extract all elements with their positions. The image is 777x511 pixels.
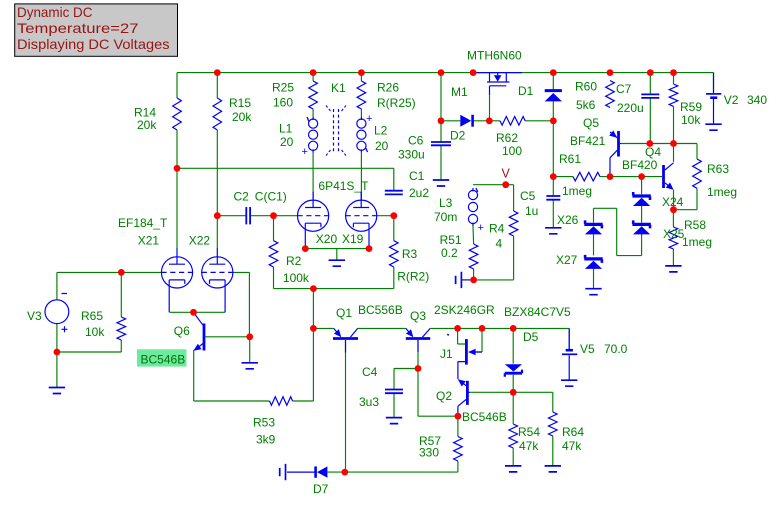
svg-text:R3: R3 — [402, 247, 418, 261]
resistor R65 — [81, 309, 126, 340]
wire R15/X22 plate column — [216, 73, 218, 249]
zener D5 (BZX84C7V5) — [504, 305, 571, 377]
junction R59 top — [670, 69, 677, 76]
wire R63 branch — [674, 144, 698, 210]
wire R61 row — [553, 176, 662, 178]
svg-text:5k6: 5k6 — [576, 98, 596, 112]
svg-text:330: 330 — [419, 446, 439, 460]
svg-text:BZX84C7V5: BZX84C7V5 — [504, 305, 571, 319]
svg-text:2u2: 2u2 — [409, 186, 429, 200]
svg-text:Q4: Q4 — [645, 145, 661, 159]
svg-text:1meg: 1meg — [682, 235, 712, 249]
svg-text:C4: C4 — [362, 365, 378, 379]
svg-text:R60: R60 — [575, 80, 597, 94]
jfet J1 (2SK246GR) — [434, 303, 495, 379]
junction Q1 base/D7 — [341, 469, 348, 476]
svg-text:70.0: 70.0 — [604, 342, 628, 356]
svg-text:R2: R2 — [286, 254, 302, 268]
wire X26-X27 link — [593, 233, 595, 289]
diode D1 — [518, 84, 562, 101]
transistor Q5 (pnp BF421) — [570, 116, 621, 177]
resistor R3 — [390, 241, 430, 284]
svg-text:330u: 330u — [398, 148, 425, 162]
capacitor C4 — [359, 365, 403, 409]
svg-text:R51: R51 — [440, 233, 462, 247]
svg-text:EF184_T: EF184_T — [118, 216, 168, 230]
svg-text:V: V — [502, 167, 511, 181]
wire R54 branch — [512, 392, 514, 466]
junction C7 top — [647, 69, 654, 76]
junction J1 gate — [479, 325, 486, 332]
svg-text:47k: 47k — [519, 439, 539, 453]
junction R26 top — [358, 69, 365, 76]
wire Q6 ground stub — [249, 337, 251, 363]
svg-text:+: + — [366, 113, 372, 125]
junction D5 top — [510, 325, 517, 332]
wire R57 branch — [457, 416, 459, 472]
svg-text:Dynamic DC: Dynamic DC — [17, 5, 93, 20]
svg-text:70m: 70m — [434, 210, 457, 224]
junction J1 drain — [454, 325, 461, 332]
svg-text:340: 340 — [747, 93, 767, 107]
svg-text:Q3: Q3 — [410, 309, 426, 323]
svg-text:3k9: 3k9 — [256, 433, 276, 447]
svg-text:C7: C7 — [616, 82, 632, 96]
wire D5 column — [512, 328, 514, 392]
capacitor C1 — [385, 169, 430, 200]
svg-text:10k: 10k — [85, 325, 105, 339]
wire Q1 base column — [345, 340, 347, 472]
zener X24 — [632, 192, 683, 209]
wire bottom D7 row — [327, 471, 458, 473]
junction C2/R2/X20 grid — [270, 212, 277, 219]
battery V5 — [562, 328, 628, 379]
junction X21 plate/C1 run — [174, 165, 181, 172]
resistor R64 — [549, 412, 585, 453]
ground at C4 — [386, 418, 402, 424]
svg-text:BC546B: BC546B — [462, 410, 507, 424]
resistor R14 — [134, 98, 181, 132]
wire R2-R3 bottom row — [274, 288, 394, 290]
diode D2 — [450, 115, 473, 143]
wire L3-R51 column — [472, 226, 475, 280]
svg-text:10k: 10k — [681, 113, 701, 127]
wire R25-L1 column — [312, 73, 314, 201]
junction X20 cathode — [302, 245, 309, 252]
ground at R54 — [505, 466, 521, 472]
svg-text:20k: 20k — [232, 110, 252, 124]
node V — [502, 167, 511, 181]
junction D2/C6 — [438, 117, 445, 124]
transistor Q1 (pnp BC556B) — [333, 303, 403, 353]
wire R65 column — [120, 272, 122, 352]
wire Q5 base row — [621, 143, 697, 145]
svg-text:4: 4 — [496, 237, 503, 251]
junction C2 left — [214, 212, 221, 219]
svg-text:Q2: Q2 — [436, 389, 452, 403]
junction D1/R62 — [550, 117, 557, 124]
junction C1/R3/X19 grid — [390, 212, 397, 219]
svg-text:20: 20 — [375, 139, 389, 153]
wire R14/X21 plate column — [176, 73, 178, 249]
zener X25 — [632, 220, 684, 241]
wire C5 lead — [552, 177, 554, 228]
junction R65 top — [118, 269, 125, 276]
resistor R15 — [213, 96, 252, 130]
ground at V3 — [49, 388, 65, 394]
wire R4 branch — [474, 185, 514, 280]
wire Q6 base row — [206, 336, 250, 338]
junction splitter/Q1 — [310, 325, 317, 332]
svg-text:V2: V2 — [724, 93, 739, 107]
svg-text:J1: J1 — [440, 347, 453, 361]
wire R64 branch — [552, 392, 554, 466]
resistor R25 — [272, 81, 317, 110]
junction Q4 emitter/R63 — [670, 206, 677, 213]
resistor R54 — [509, 424, 540, 453]
svg-text:C1: C1 — [409, 169, 425, 183]
svg-text:R53: R53 — [253, 416, 275, 430]
svg-text:X27: X27 — [556, 253, 578, 267]
junction C6 top — [438, 69, 445, 76]
svg-text:R(R2): R(R2) — [397, 270, 429, 284]
svg-text:MTH6N60: MTH6N60 — [467, 49, 522, 63]
wire R53 to splitter column — [293, 328, 314, 401]
svg-text:BC556B: BC556B — [358, 303, 403, 317]
inductor L1 — [279, 117, 318, 158]
svg-text:20k: 20k — [137, 118, 157, 132]
svg-text:X25: X25 — [663, 227, 685, 241]
wire R2 column — [273, 216, 275, 289]
battery V2 — [706, 73, 767, 124]
wire C1 coupling run — [177, 168, 394, 190]
svg-text:BF420: BF420 — [622, 158, 658, 172]
diode D7 — [313, 466, 329, 496]
wire splitter column — [312, 289, 314, 329]
wire C7 column — [649, 73, 651, 144]
junction R25 top — [310, 69, 317, 76]
junction node V — [502, 181, 509, 188]
junction D5/Q2 base — [510, 389, 517, 396]
wire X22 grid to Q6 base ground — [233, 272, 249, 336]
junction R2-R3 row — [310, 285, 317, 292]
svg-text:BC546B: BC546B — [141, 352, 186, 366]
ground at R58 — [665, 266, 681, 272]
resistor R61 — [559, 152, 600, 198]
junction Q5 collector/R61 — [607, 173, 614, 180]
svg-text:L2: L2 — [374, 124, 388, 138]
ground at D7 (left) — [280, 464, 286, 480]
wire Q4 collector lead — [673, 144, 675, 163]
resistor R53 — [253, 397, 293, 447]
tube X21 (EF184_T) — [118, 216, 193, 312]
svg-text:100k: 100k — [283, 271, 310, 285]
wire R59 column — [673, 73, 675, 144]
wire X21 grid from V3 — [57, 271, 161, 273]
svg-text:Q5: Q5 — [583, 116, 599, 130]
wire D2 to R62 row — [441, 120, 553, 122]
resistor R59 — [669, 84, 702, 127]
svg-text:Q1: Q1 — [336, 306, 352, 320]
highlight BC546B label of Q6 — [137, 349, 187, 366]
wire Q6 emitter to R53 — [194, 350, 270, 401]
wire R58 column — [672, 210, 674, 266]
junction Q2 collector/R57 — [455, 413, 462, 420]
svg-text:V3: V3 — [27, 309, 42, 323]
wire V3 column — [56, 272, 58, 387]
svg-text:1u: 1u — [525, 204, 538, 218]
svg-text:D1: D1 — [518, 84, 534, 98]
source V3 (sine) — [27, 294, 69, 333]
svg-text:100: 100 — [502, 144, 522, 158]
svg-text:BF421: BF421 — [570, 134, 606, 148]
wire Q1 emitter feed — [313, 327, 333, 329]
resistor R2 — [269, 241, 310, 285]
svg-text:6P41S_T: 6P41S_T — [318, 179, 369, 193]
wire D1 column — [552, 73, 554, 177]
svg-text:R62: R62 — [496, 131, 518, 145]
capacitor C2 — [234, 190, 287, 225]
svg-text:L1: L1 — [279, 122, 293, 136]
junction tube cathodes — [190, 309, 197, 316]
zener X26 — [557, 213, 603, 234]
ground at C5 — [545, 228, 561, 234]
wire Q1-Q3 link — [358, 327, 406, 329]
transistor Q4 (npn BF420) — [622, 145, 674, 190]
svg-text:220u: 220u — [617, 101, 644, 115]
svg-text:160: 160 — [273, 96, 293, 110]
ground at X20/X19 cathode — [329, 260, 345, 266]
inductor L2 — [357, 113, 389, 153]
wire J1 gate lead — [476, 328, 482, 352]
wire top supply rail — [177, 72, 714, 74]
ground at C6 — [433, 180, 449, 186]
ground at V5 — [561, 380, 577, 386]
wire left ground stub L3 — [461, 279, 473, 281]
svg-text:+: + — [302, 146, 308, 158]
wire R3 column — [393, 216, 395, 289]
wire D7 anode lead — [287, 471, 315, 473]
svg-text:R65: R65 — [81, 309, 103, 323]
junction C7/Q5 base — [646, 140, 653, 147]
svg-text:R54: R54 — [518, 425, 540, 439]
svg-text:V5: V5 — [580, 342, 595, 356]
svg-text:C(C1): C(C1) — [255, 190, 287, 204]
wire L3/V node row — [473, 184, 514, 186]
transformer core K1 — [326, 81, 346, 156]
svg-text:1meg: 1meg — [562, 184, 592, 198]
svg-text:R25: R25 — [272, 81, 294, 95]
junction R59/Q4 collector — [670, 140, 677, 147]
junction Q3 base/C4 — [415, 365, 422, 372]
svg-text:Q6: Q6 — [174, 324, 190, 338]
wire X25 to X26 jog — [594, 208, 642, 255]
svg-text:L3: L3 — [439, 196, 453, 210]
wire C4 stub — [394, 369, 418, 390]
resistor R26 — [357, 81, 416, 111]
resistor R63 — [693, 159, 737, 199]
transistor Q2 (npn BC546B) — [436, 379, 507, 424]
wire zener chain X24-X25 — [641, 177, 643, 256]
wire X19 grid row — [377, 215, 394, 217]
svg-text:R58: R58 — [684, 218, 706, 232]
wire X20/X19 cathode row — [305, 248, 369, 250]
ground at Q6 base — [242, 363, 258, 369]
wire M1 gate lead — [489, 95, 491, 121]
wire V5 branch — [568, 328, 570, 349]
svg-text:C6: C6 — [408, 134, 424, 148]
resistor R58 — [669, 218, 712, 249]
svg-text:47k: 47k — [562, 439, 582, 453]
svg-text:3u3: 3u3 — [359, 395, 379, 409]
junction X24 top — [638, 173, 645, 180]
inductor L3 — [434, 188, 484, 234]
svg-text:R(R25): R(R25) — [377, 96, 416, 110]
wire X21/X22 cathode row — [170, 311, 226, 313]
wire C4 ground lead — [393, 393, 395, 417]
svg-text:20: 20 — [280, 135, 294, 149]
capacitor C5 — [520, 189, 560, 218]
svg-text:K1: K1 — [331, 81, 346, 95]
ground at V2 — [705, 124, 721, 130]
svg-text:Displaying DC Voltages: Displaying DC Voltages — [17, 37, 170, 52]
svg-text:Temperature=27: Temperature=27 — [17, 21, 139, 36]
status box: analysis info — [15, 4, 178, 56]
svg-text:M1: M1 — [451, 85, 468, 99]
svg-text:R61: R61 — [559, 152, 581, 166]
svg-text:R15: R15 — [229, 96, 251, 110]
svg-text:0.2: 0.2 — [441, 246, 458, 260]
svg-text:1meg: 1meg — [707, 185, 737, 199]
svg-text:X21: X21 — [138, 234, 160, 248]
capacitor C7 — [616, 82, 659, 115]
svg-text:R64: R64 — [562, 425, 584, 439]
mosfet M1 (MTH6N60) — [451, 49, 522, 100]
wire J1 drain lead — [458, 328, 465, 344]
svg-text:D5: D5 — [523, 330, 539, 344]
resistor R62 — [496, 117, 525, 159]
wire X20 grid row — [217, 215, 297, 217]
resistor R60 — [575, 80, 614, 113]
junction V3 bottom — [54, 349, 61, 356]
zener X27 — [556, 253, 603, 269]
svg-text:+: + — [478, 222, 484, 234]
junction R15 top — [214, 69, 221, 76]
svg-text:R59: R59 — [680, 100, 702, 114]
tube X19 — [342, 192, 377, 249]
svg-text:X22: X22 — [189, 234, 211, 248]
junction R61/C5 — [550, 173, 557, 180]
junction M1 gate/R62 — [486, 117, 493, 124]
wire V2 branch — [713, 73, 715, 93]
tube X20 (6P41S_T) — [298, 179, 370, 249]
junction Q6 base gnd — [246, 333, 253, 340]
junction X19 cathode — [366, 245, 373, 252]
svg-text:R4: R4 — [489, 222, 505, 236]
wire V3-R65 bottom row — [57, 351, 121, 353]
junction R51/ground — [470, 277, 477, 284]
svg-text:R26: R26 — [377, 81, 399, 95]
wire cathode ground stub — [336, 249, 338, 261]
capacitor C6 — [398, 134, 451, 162]
junction R60 top — [607, 69, 614, 76]
wire Q4 emitter lead — [673, 190, 675, 210]
transistor Q6 (npn) — [174, 313, 204, 351]
resistor R4 — [489, 211, 518, 251]
resistor R57 — [419, 434, 462, 461]
svg-text:C2: C2 — [234, 190, 250, 204]
svg-text:X26: X26 — [557, 213, 579, 227]
wire Q3 collector to J1/D5 row — [430, 327, 569, 329]
transistor Q3 (pnp) — [406, 309, 430, 352]
wire Q3 base node down — [418, 369, 458, 417]
wire Q3 base to C4 node — [417, 340, 419, 369]
junction D1 top — [550, 69, 557, 76]
junction M1 drain — [470, 69, 477, 76]
ground at L3/R51 (left) — [456, 272, 462, 288]
wire C6/D2 branch column — [440, 73, 442, 180]
wire R26-L2 column — [360, 73, 362, 201]
tube X22 — [189, 234, 233, 313]
svg-text:X19: X19 — [342, 232, 364, 246]
wire D5 to R64 row — [513, 391, 553, 393]
resistor R51 — [440, 233, 478, 269]
svg-text:D7: D7 — [313, 482, 329, 496]
svg-text:X20: X20 — [316, 232, 338, 246]
ground at X27 — [585, 289, 601, 295]
ground at R64 — [545, 466, 561, 472]
svg-text:2SK246GR: 2SK246GR — [434, 303, 495, 317]
svg-text:R63: R63 — [707, 162, 729, 176]
svg-text:D2: D2 — [450, 129, 466, 143]
svg-text:C5: C5 — [520, 189, 536, 203]
wire Q2 base row — [470, 391, 513, 393]
